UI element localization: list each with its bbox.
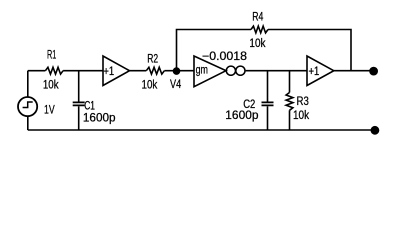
svg-text:+1: +1 bbox=[309, 66, 320, 78]
svg-text:−0.0018: −0.0018 bbox=[202, 51, 247, 63]
svg-text:V4: V4 bbox=[170, 79, 182, 91]
svg-text:C1: C1 bbox=[84, 101, 95, 113]
svg-text:R3: R3 bbox=[297, 96, 309, 108]
svg-text:R1: R1 bbox=[47, 50, 56, 62]
svg-text:10k: 10k bbox=[249, 38, 265, 50]
svg-text:+1: +1 bbox=[103, 66, 114, 78]
svg-text:10k: 10k bbox=[43, 80, 59, 92]
svg-text:1600p: 1600p bbox=[225, 110, 258, 122]
svg-text:1600p: 1600p bbox=[83, 112, 116, 124]
svg-text:10k: 10k bbox=[142, 79, 158, 91]
svg-text:R2: R2 bbox=[147, 54, 158, 66]
svg-text:10k: 10k bbox=[293, 110, 309, 122]
svg-text:gm: gm bbox=[196, 65, 208, 77]
svg-text:R4: R4 bbox=[252, 12, 264, 24]
svg-text:1V: 1V bbox=[44, 105, 55, 117]
